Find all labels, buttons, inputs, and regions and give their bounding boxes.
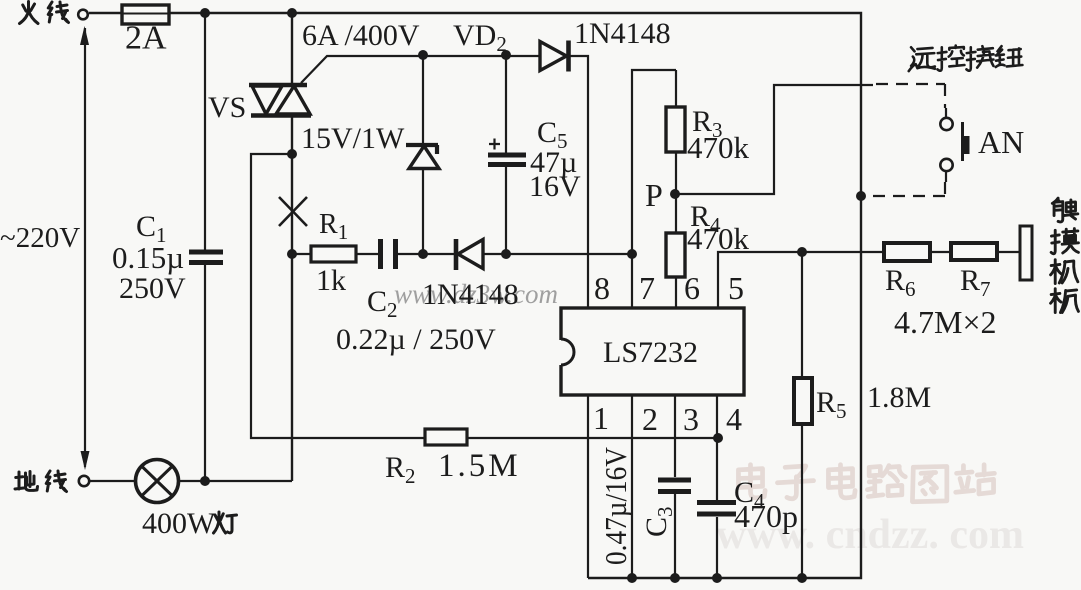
svg-text:1N4148: 1N4148 (574, 17, 671, 50)
svg-text:2: 2 (642, 401, 658, 437)
svg-text:3: 3 (683, 401, 699, 437)
svg-text:6: 6 (684, 270, 700, 306)
svg-text:470p: 470p (734, 498, 798, 534)
svg-text:1.5M: 1.5M (438, 448, 521, 484)
svg-text:250V: 250V (119, 272, 186, 305)
svg-text:2A: 2A (125, 20, 167, 57)
svg-text:0.22µ / 250V: 0.22µ / 250V (336, 323, 496, 356)
svg-text:470k: 470k (687, 130, 750, 165)
svg-text:4: 4 (726, 401, 742, 437)
svg-text:P: P (645, 177, 663, 213)
svg-text:1k: 1k (316, 264, 346, 297)
svg-text:400W: 400W (142, 507, 216, 540)
svg-text:1: 1 (593, 400, 609, 436)
svg-text:0.47µ/16V: 0.47µ/16V (598, 446, 633, 565)
svg-text:470k: 470k (687, 221, 750, 256)
svg-text:15V/1W: 15V/1W (301, 122, 405, 155)
svg-text:16V: 16V (529, 170, 581, 203)
svg-text:5: 5 (728, 270, 744, 306)
svg-text:7: 7 (639, 270, 655, 306)
svg-text:VS: VS (208, 91, 246, 124)
svg-text:AN: AN (978, 124, 1024, 160)
svg-text:8: 8 (594, 270, 610, 306)
svg-text:0.15µ: 0.15µ (112, 240, 184, 275)
svg-text:~220V: ~220V (0, 222, 80, 254)
svg-text:6A /400V: 6A /400V (302, 19, 420, 52)
svg-text:LS7232: LS7232 (603, 336, 698, 369)
svg-text:1N4148: 1N4148 (422, 278, 519, 311)
svg-text:1.8M: 1.8M (867, 381, 931, 414)
svg-text:4.7M×2: 4.7M×2 (894, 304, 997, 340)
